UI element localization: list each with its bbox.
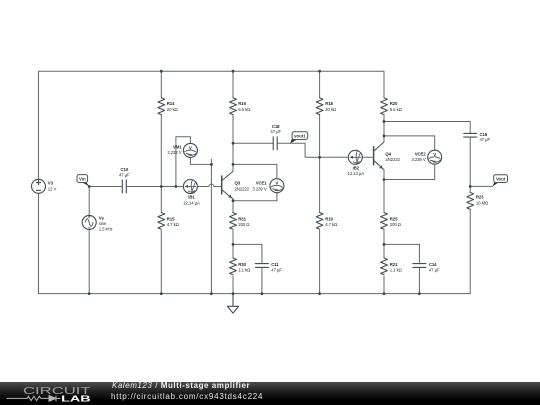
svg-text:C15: C15: [480, 132, 488, 137]
wire V3 bottom to ground rail: [38, 193, 40, 293]
resistor R15 4.7k: [158, 213, 165, 230]
junction rail R21: [383, 292, 386, 295]
flag Vin: [77, 175, 89, 187]
wire R15 bottom lead to rail: [160, 231, 162, 294]
wire Vs bottom to rail: [88, 229, 90, 293]
junction C18 tap on Q3 collector: [232, 142, 235, 145]
wire VCE1 top loop: [233, 164, 277, 178]
wire R25 bottom to junction: [383, 231, 385, 259]
voltmeter VCE2: [428, 150, 442, 164]
svg-text:V: V: [433, 152, 436, 157]
junction R31/R30/C11 node: [232, 243, 235, 246]
svg-text:4.7 kΩ: 4.7 kΩ: [325, 222, 338, 227]
svg-text:R21: R21: [390, 262, 398, 267]
voltmeter VCE1: [270, 179, 284, 193]
junction R14/R15 bias node: [160, 185, 163, 188]
junction R25/R21/C14 node: [383, 243, 386, 246]
svg-text:R23: R23: [476, 195, 484, 200]
svg-text:47 µF: 47 µF: [270, 129, 281, 134]
wire R18 bottom to stage2 bias node: [319, 115, 321, 158]
capacitor C10 plates: [122, 180, 126, 193]
wire R20 bottom / Q4 collector column: [383, 115, 385, 142]
wire top rail: [39, 70, 385, 72]
wire C18 tap: [233, 142, 273, 144]
wire IB1 right to Q3 base (hop over VM1 wire): [198, 184, 222, 187]
svg-text:2N2222: 2N2222: [385, 157, 400, 162]
node vout1 junction R18/R19: [318, 156, 321, 159]
svg-text:V: V: [275, 181, 278, 186]
wire R18 top lead from rail: [319, 71, 321, 98]
svg-text:sine: sine: [99, 221, 107, 226]
wire VM1 bottom to drop wire: [190, 158, 211, 165]
wire VCE2 bottom loop to emitter node: [384, 165, 435, 180]
svg-text:C14: C14: [429, 262, 437, 267]
svg-text:V3: V3: [48, 181, 54, 186]
wire left rail (V+ down to V3): [38, 71, 40, 179]
svg-text:2N2222: 2N2222: [235, 186, 250, 191]
svg-text:VCE2: VCE2: [415, 151, 427, 156]
resistor R25 200: [381, 213, 388, 230]
wire C10 to bias node to IB1: [126, 186, 183, 188]
svg-text:R16: R16: [238, 101, 246, 106]
capacitor C18 plates: [273, 137, 277, 150]
svg-text:5.6 kΩ: 5.6 kΩ: [238, 107, 251, 112]
svg-text:1.5 kHz: 1.5 kHz: [99, 227, 113, 232]
resistor R19 4.7k: [316, 213, 323, 230]
svg-text:R20: R20: [390, 101, 398, 106]
svg-text:R25: R25: [390, 216, 398, 221]
svg-text:47 µF: 47 µF: [119, 173, 130, 178]
svg-text:12.14 µA: 12.14 µA: [348, 171, 365, 176]
svg-text:2.232 V: 2.232 V: [167, 150, 181, 155]
svg-text:vout1: vout1: [294, 134, 306, 139]
svg-text:200 Ω: 200 Ω: [390, 222, 402, 227]
svg-text:12 V: 12 V: [48, 187, 57, 192]
resistor R18 20k: [316, 98, 323, 115]
resistor R14 20k: [158, 98, 165, 115]
wire C15 tap to the right: [384, 122, 470, 134]
junction rail C14: [418, 292, 421, 295]
svg-text:47 µF: 47 µF: [480, 137, 491, 142]
ground symbol: [227, 294, 238, 314]
junction top rail R14: [160, 70, 163, 73]
svg-text:LAB: LAB: [61, 394, 91, 403]
junction VM1 top tap: [175, 185, 178, 188]
transistor Q4 2N2222: [374, 142, 384, 170]
node Vin junction: [88, 185, 91, 188]
transistor Q3 2N2222: [222, 171, 233, 199]
junction rail R19: [318, 292, 321, 295]
source Vs sine: [82, 215, 96, 229]
svg-text:R31: R31: [238, 216, 246, 221]
junction Q3 emitter node: [232, 199, 235, 202]
capacitor C11 plates: [255, 264, 268, 268]
svg-text:IB2: IB2: [353, 165, 360, 170]
svg-text:Q3: Q3: [235, 181, 241, 186]
wire R20 top lead from rail corner: [383, 71, 385, 98]
capacitor C15 plates: [464, 133, 477, 137]
wire junction to C14: [384, 243, 419, 245]
svg-text:IB1: IB1: [188, 195, 195, 200]
svg-text:47 µF: 47 µF: [429, 268, 440, 273]
resistor R16 5.6k: [230, 98, 237, 115]
svg-text:Vout: Vout: [496, 177, 506, 182]
svg-text:4.7 kΩ: 4.7 kΩ: [167, 222, 180, 227]
svg-text:R19: R19: [325, 216, 333, 221]
svg-text:200 Ω: 200 Ω: [238, 222, 250, 227]
junction rail R30/ground: [232, 292, 235, 295]
svg-text:1.1 kΩ: 1.1 kΩ: [238, 268, 251, 273]
wire R31 bottom to junction: [232, 231, 234, 259]
svg-text:C11: C11: [271, 262, 279, 267]
junction VM1 bottom wire corner: [210, 163, 213, 166]
svg-text:VM1: VM1: [173, 145, 182, 150]
svg-text:R14: R14: [167, 101, 175, 106]
wire R19 leads: [319, 157, 321, 212]
wire R15 top lead: [160, 187, 162, 213]
wire C15 bottom through vout node to R23: [469, 137, 471, 192]
junction top rail R18: [318, 70, 321, 73]
wire R16 top lead from rail: [232, 71, 234, 98]
junction rail R15: [160, 292, 163, 295]
ammeter IB2: [348, 150, 362, 164]
voltage source V3: [32, 179, 46, 193]
wire right riser (R23 bottom to rail): [469, 209, 471, 293]
svg-text:Vs: Vs: [99, 215, 105, 220]
junction top rail R16: [232, 70, 235, 73]
wire R16 bottom / Q3 collector column: [232, 115, 234, 172]
svg-text:20 kΩ: 20 kΩ: [167, 107, 179, 112]
svg-text:VCE1: VCE1: [256, 181, 268, 186]
svg-text:3.239 V: 3.239 V: [252, 186, 266, 191]
junction VCE1 top tap: [232, 163, 235, 166]
wire R14 top lead from rail: [160, 71, 162, 98]
node Vout junction: [469, 185, 472, 188]
wire VM1 drop to ground rail: [210, 164, 212, 293]
wire IB2 to Q4 base: [363, 156, 374, 158]
wire VCE2 top loop: [384, 136, 435, 150]
svg-text:10 MΩ: 10 MΩ: [476, 200, 489, 205]
svg-text:5.6 kΩ: 5.6 kΩ: [390, 107, 403, 112]
svg-text:47 µF: 47 µF: [271, 268, 282, 273]
junction rail C11: [261, 292, 264, 295]
wire C11 bottom lead to rail: [261, 267, 263, 293]
wire Q3 emitter down through R31: [232, 199, 234, 213]
wire VCE1 bottom loop to emitter node: [233, 193, 277, 201]
svg-text:20 kΩ: 20 kΩ: [325, 107, 337, 112]
svg-text:Q4: Q4: [385, 151, 391, 156]
wire junction to C11: [233, 243, 262, 245]
svg-text:12.14 µA: 12.14 µA: [183, 200, 200, 205]
svg-text:V: V: [189, 145, 192, 150]
flag vout1: [290, 132, 308, 144]
resistor R21 1.1k: [381, 258, 388, 275]
wire bottom ground rail: [39, 293, 471, 295]
junction rail VM1 wire: [210, 292, 213, 295]
svg-text:R18: R18: [325, 101, 333, 106]
wire Q4 emitter down through R25: [383, 170, 385, 213]
resistor R31 200: [230, 213, 237, 230]
wire Vin node to C10: [89, 186, 122, 188]
resistor R30 1.1k: [230, 258, 237, 275]
svg-text:1.1 kΩ: 1.1 kΩ: [390, 268, 403, 273]
resistor R23 10M: [467, 193, 474, 210]
svg-text:C18: C18: [272, 124, 280, 129]
wire R14 bottom lead to bias node: [160, 115, 162, 187]
svg-text:R30: R30: [238, 262, 246, 267]
ammeter IB1: [183, 180, 197, 194]
flag Vout: [493, 175, 508, 187]
svg-text:R15: R15: [167, 216, 175, 221]
wire VM1 drop stub: [210, 159, 212, 164]
wire Vin node down to Vs: [88, 187, 90, 216]
wire vout stub: [470, 185, 492, 187]
wire R30 bottom to rail: [232, 276, 234, 293]
svg-text:3.239 V: 3.239 V: [411, 157, 425, 162]
junction C15 tap on Q4 collector: [383, 120, 386, 123]
svg-text:Vin: Vin: [79, 177, 86, 182]
wire R21 bottom to rail: [383, 276, 385, 293]
svg-text:C10: C10: [121, 167, 129, 172]
voltmeter VM1: [183, 143, 197, 157]
footer bar: [0, 382, 540, 405]
junction VCE2 top tap: [383, 135, 386, 138]
wire C11 top lead: [261, 244, 263, 263]
junction Q4 emitter node: [383, 178, 386, 181]
resistor R20 5.6k: [381, 98, 388, 115]
wire C18 right to vout1 bend down to stage2 bias node: [277, 143, 319, 157]
wire bias node to IB2: [320, 156, 349, 158]
capacitor C14 plates: [413, 264, 426, 268]
CircuitLab logo: [23, 386, 92, 404]
junction rail Vs: [88, 292, 91, 295]
wire C14 leads: [418, 244, 420, 263]
wire VM1 top loop to bias node: [176, 137, 191, 187]
